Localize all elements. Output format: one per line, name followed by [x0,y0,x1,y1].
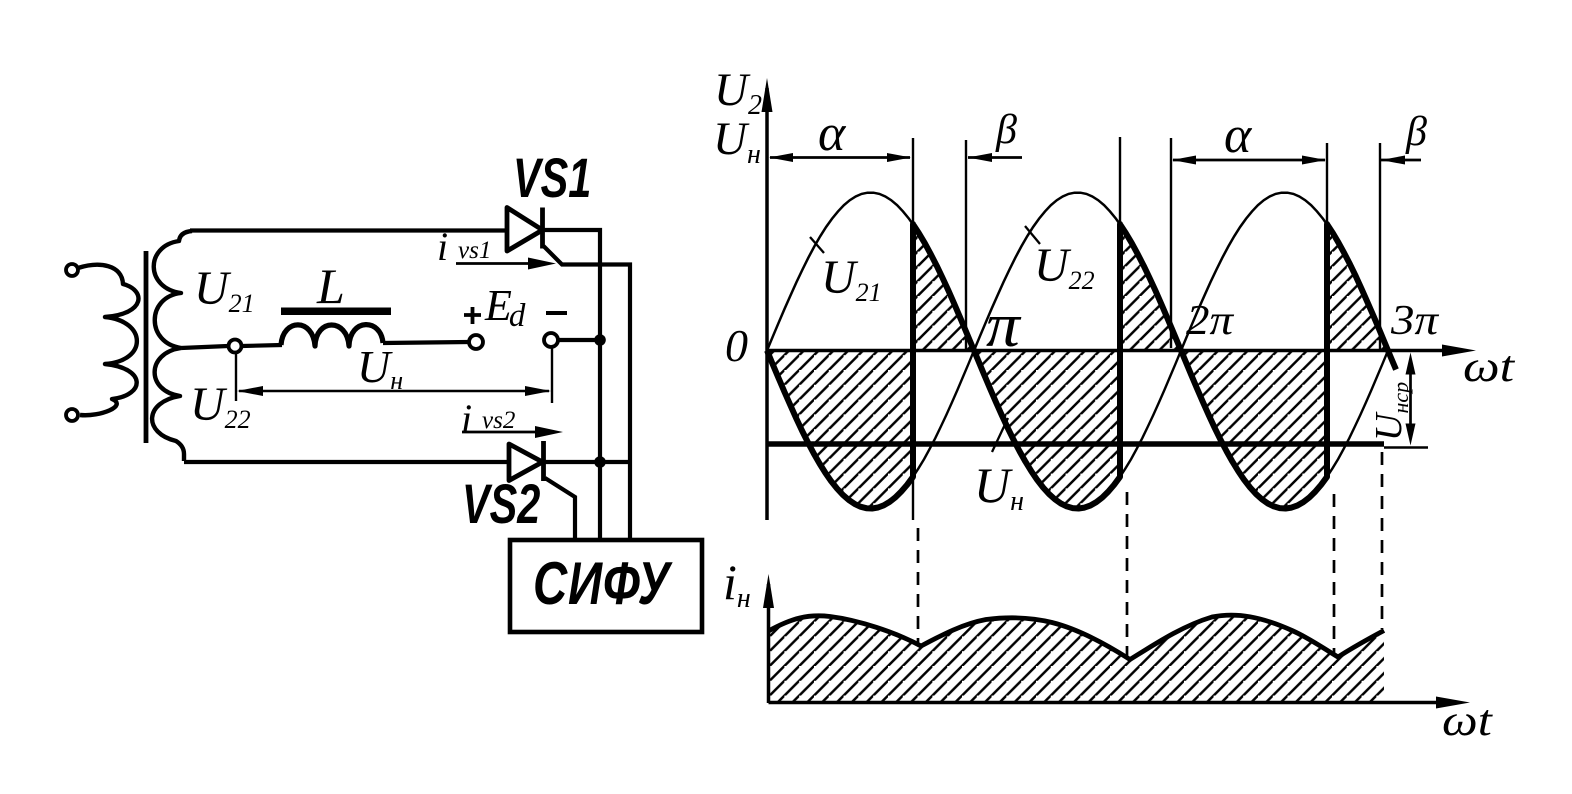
sine hump third [1181,193,1388,351]
arrow i vs2 [462,431,541,434]
thyristor VS2 cathode bar [541,441,546,481]
label 3pi [1390,296,1440,343]
inductor L core bar [281,308,391,316]
transformer T1 primary winding [78,265,138,415]
svg-text:0: 0 [725,320,748,371]
leader for U22 [1025,226,1040,244]
axis omega-t lower [769,701,1443,705]
svg-text:α: α [1224,107,1253,164]
hatched area u_n positive alpha to pi [913,224,974,351]
hatched area u_n positive to 2pi [1120,224,1181,351]
extension line at 2pi [1170,138,1172,348]
axis i_n vertical [767,584,771,703]
wire terminal to inductor [242,345,282,346]
thin arc u21 negative after second firing [1120,351,1181,477]
thyristor VS2 gate lead [545,478,575,540]
thin extension of mean line [1384,446,1428,448]
load terminal minus [544,333,558,347]
dashed line at firing 1 [917,528,920,646]
transformer T1 secondary winding U22 (lower half) [152,348,184,461]
extension line beta 2 [1379,143,1381,350]
dimension beta 2 [1381,159,1421,162]
leader for u_n [992,418,1008,452]
label minus sign [546,311,567,315]
thyristor VS1 gate lead [544,246,631,540]
dimension beta 1 [968,156,1022,159]
dashed line at 3pi [1381,452,1384,629]
dimension U_ncp vertical arrow [1409,360,1412,438]
dimension Uh double arrow [239,390,549,392]
hatched area load current [769,615,1385,702]
label 2pi [1186,296,1235,343]
extension line at first firing angle [912,138,914,520]
label omega-t lower [1442,697,1494,745]
curve i_n load current [769,615,1385,659]
load terminal plus [469,335,483,349]
svg-text:СИФУ: СИФУ [533,551,674,618]
wire top rail (secondary top to VS1 anode) [190,228,508,232]
svg-text:β: β [995,107,1017,153]
transformer T1 secondary winding U21 (upper half) [154,231,192,348]
svg-text:vs2: vs2 [482,407,515,434]
label plus sign [464,307,481,324]
node cathode junction at Ed row [594,334,606,346]
wire center tap to terminal [181,346,228,348]
dashed line at firing 2 [1126,492,1129,658]
svg-text:ωt: ωt [1442,697,1494,745]
label VS1 [513,147,591,210]
dimension alpha 1 [770,156,910,159]
thyristor VS1 [507,208,543,252]
svg-text:VS2: VS2 [462,473,540,536]
extension line at third firing angle [1326,143,1328,224]
thyristor VS2 [509,444,543,481]
wire bottom rail (secondary bottom to VS2 anode) [184,460,510,464]
svg-text:vs1: vs1 [458,237,491,264]
hatched area u_n negative lobe pi to alpha2 [974,351,1120,509]
thick curve u_n load voltage [767,224,1396,509]
mean value line U_ncp [767,441,1384,446]
hatched area u_n negative lobe 0 to alpha [767,351,913,509]
dimension alpha 2 [1173,159,1325,162]
transformer T1 primary terminal (bottom) [66,409,78,421]
wire inductor to load plus terminal [383,342,469,343]
dimension Uh right tick below minus terminal [551,348,553,403]
dashed line at firing 3 [1333,494,1336,656]
wire minus terminal to cathode node [558,338,600,342]
axis U2 vertical [765,88,769,520]
svg-text:i: i [437,224,448,269]
label omega-t upper [1463,343,1516,391]
transformer T1 core [144,251,149,443]
sine hump u22 second [974,193,1181,351]
arrow i vs1 [456,262,534,265]
svg-text:L: L [316,258,345,314]
leader for U21 [810,237,824,253]
svg-text:α: α [818,105,847,162]
label SIFU [533,551,674,618]
dimension Uh left tick below center tap [235,353,237,401]
svg-text:2π: 2π [1186,296,1235,343]
axis omega-t horizontal [767,349,1448,353]
thin arc u22 negative after first firing [913,351,974,477]
extension line beta 1 [965,140,967,350]
hatched area u_n negative lobe 2pi to alpha3 [1181,351,1327,509]
svg-text:VS1: VS1 [513,147,591,210]
svg-text:π: π [986,291,1022,360]
extension line at second firing angle [1119,137,1121,224]
wire VS2 cathode to gate column [543,460,633,464]
svg-text:3π: 3π [1390,296,1440,343]
wire VS1 cathode to right corner [543,230,601,540]
transformer T1 primary terminal (top) [66,264,78,276]
svg-text:β: β [1405,109,1427,155]
label VS2 [462,473,540,536]
svg-text:ωt: ωt [1463,343,1516,391]
thin arc u22 negative after third firing [1327,351,1388,477]
control block SIFU [510,540,702,632]
node cathode junction at VS2 [594,456,606,468]
hatched area u_n positive to 3pi [1327,224,1388,351]
sine hump u21 first [767,193,974,351]
thyristor VS1 cathode bar [540,208,545,249]
label pi [986,291,1022,360]
node center tap terminal [229,340,242,353]
inductor L winding [281,325,383,346]
svg-text:i: i [461,396,472,441]
